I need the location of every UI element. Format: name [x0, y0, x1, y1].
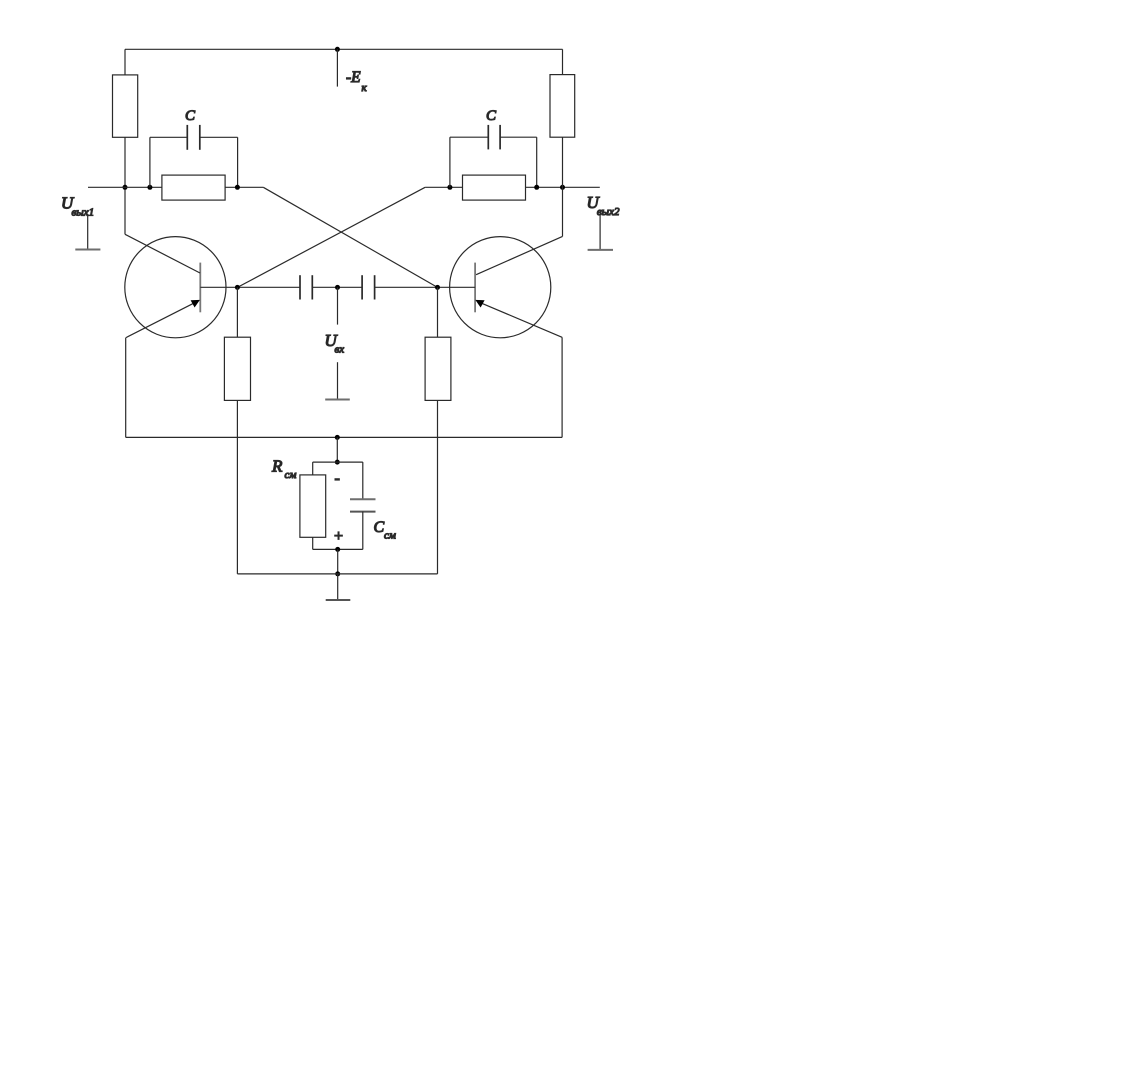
wire: Rsm/Csm loop top — [313, 461, 363, 463]
node: right RC left junction — [447, 185, 452, 190]
wire: right base to right emitter resistor — [437, 287, 439, 337]
wire: left base to left emitter resistor — [236, 287, 238, 337]
resistor: left base bias resistor — [224, 337, 250, 400]
capacitor C (right coupling), left plate — [487, 125, 489, 149]
node: Rsm/Csm bottom junction — [335, 547, 340, 552]
wire: right RC bend to RC — [425, 186, 462, 188]
wire: left RC right to bend — [225, 186, 263, 188]
transistor VT2 (right) body circle — [450, 237, 551, 338]
wire: -Ek top supply rail — [125, 48, 563, 50]
svg-text:вх: вх — [335, 344, 345, 356]
node: left base node — [235, 285, 240, 290]
capacitor Csm bottom plate — [350, 511, 376, 513]
transistor VT1 emitter arrow (PNP, pointing into base bar) — [191, 300, 200, 308]
wire: input node stub down — [337, 287, 339, 324]
svg-text:к: к — [362, 82, 368, 94]
capacitor C (left coupling), right plate — [199, 125, 201, 150]
transistor VT2 emitter arrow (PNP, pointing into base bar) — [475, 300, 484, 308]
terminal: output 1 bar — [75, 249, 100, 251]
wire: -Ek stub — [336, 49, 338, 86]
transistor VT2 emitter diagonal — [482, 303, 562, 337]
wire: left collector resistor to collector node — [124, 137, 126, 234]
wire: right emitter down rail — [561, 337, 563, 437]
wire: right collector resistor to node and down — [562, 137, 564, 236]
wire: cross coupling diagonal to right base — [263, 187, 437, 287]
node: right base node — [435, 285, 440, 290]
node: emitter bus center — [335, 435, 340, 440]
capacitor Csm top plate — [350, 498, 376, 500]
transistor VT1 base bar — [199, 263, 201, 313]
node: input center node — [335, 285, 340, 290]
wire: Rsm/Csm loop bottom — [313, 548, 363, 550]
svg-text:см: см — [384, 530, 396, 542]
transistor VT1 (left) body circle — [125, 237, 226, 338]
node: right RC right junction — [534, 185, 539, 190]
svg-text:C: C — [374, 519, 385, 536]
wire: right collector diagonal into transistor — [476, 236, 562, 274]
capacitor C (left coupling), left plate — [186, 125, 188, 150]
wire: left emitter down rail — [125, 338, 127, 438]
wire: Csm bottom riser — [362, 512, 364, 550]
wire: right RC loop top left — [450, 136, 488, 138]
terminal: output 2 post — [599, 215, 601, 250]
wire: right RC loop left riser — [449, 137, 451, 187]
wire: left base to input cap 1 — [237, 286, 300, 288]
wire: left RC loop top left — [150, 136, 187, 138]
resistor Rsm — [300, 475, 326, 537]
wire: Rsm bottom riser — [312, 537, 314, 549]
resistor: right collector resistor — [550, 75, 575, 138]
svg-text:-E: -E — [346, 69, 361, 86]
transistor VT2 base lead — [438, 286, 476, 288]
resistor: left coupling resistor — [162, 175, 225, 200]
capacitor: input cap 1 right plate — [311, 275, 313, 299]
node: Rsm/Csm top junction — [335, 460, 340, 465]
transistor VT1 collector diagonal — [125, 234, 200, 273]
resistor: right coupling resistor — [463, 175, 526, 200]
node: right collector node — [560, 185, 565, 190]
wire: Rsm top riser — [312, 462, 314, 475]
wire: ground stub — [337, 574, 339, 600]
wire: left RC loop left riser — [149, 137, 151, 187]
wire: top rail to left collector resistor — [124, 49, 126, 75]
wire: input cap 2 to right base — [375, 286, 438, 288]
transistor VT2 base bar — [474, 263, 476, 313]
terminal: input reference post — [337, 362, 339, 399]
wire: emitter bus — [126, 436, 562, 438]
node: left RC right junction — [235, 185, 240, 190]
wire: cross coupling diagonal to left base — [237, 187, 425, 287]
wire: left RC loop right riser — [237, 137, 239, 187]
wire: output 1 lead — [88, 186, 162, 188]
node: bias bus center — [335, 571, 340, 576]
capacitor: input cap 2 right plate — [374, 275, 376, 299]
capacitor: input cap 1 left plate — [299, 275, 301, 299]
transistor VT1 emitter diagonal — [126, 303, 194, 337]
node: left collector node — [123, 185, 128, 190]
svg-text:+: + — [333, 528, 344, 545]
svg-text:C: C — [185, 108, 196, 124]
capacitor: input cap 2 left plate — [361, 275, 363, 299]
wire: input cap 1 to center node — [312, 286, 362, 288]
resistor: left collector resistor — [113, 75, 138, 137]
wire: right bias resistor down to bias bus — [437, 400, 439, 574]
wire: Csm top riser — [362, 462, 364, 499]
resistor: right base bias resistor — [425, 337, 451, 400]
node: -Ek tap junction — [335, 47, 340, 52]
wire: left RC loop top right — [200, 136, 238, 138]
terminal: output 1 post — [87, 214, 89, 250]
capacitor C (right coupling), right plate — [499, 125, 501, 149]
ground — [326, 599, 351, 601]
wire: right RC to right collector node — [526, 186, 600, 188]
svg-text:C: C — [486, 108, 497, 124]
terminal: input reference bar — [325, 399, 350, 401]
wire: bias bus — [237, 573, 437, 575]
wire: emitter bus to Rsm/Csm top — [336, 437, 338, 462]
wire: right RC loop right riser — [536, 137, 538, 187]
node: left RC left junction — [147, 185, 152, 190]
svg-text:см: см — [285, 469, 297, 481]
terminal: output 2 bar — [588, 249, 613, 251]
wire: bottom junction to bias bus — [337, 549, 339, 574]
svg-text:-: - — [335, 470, 340, 487]
svg-text:R: R — [271, 457, 283, 476]
wire: left bias resistor down to bias bus — [236, 400, 238, 574]
transistor VT1 base lead — [200, 286, 237, 288]
wire: right RC loop top right — [500, 136, 537, 138]
wire: top rail to right collector resistor — [562, 49, 564, 74]
svg-text:вых1: вых1 — [72, 206, 95, 218]
